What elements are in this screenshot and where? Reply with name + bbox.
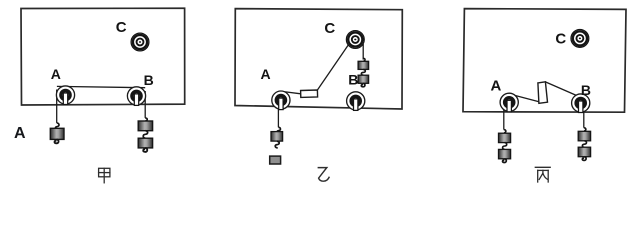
thread over pulleys A-B (panel 甲) [57,86,145,87]
hook above left weight (panel 甲) [55,123,59,129]
string below pulley A (panel 乙) [277,101,279,127]
weight B2 (panel 乙) [358,75,369,83]
hook above right weights (panel 甲) [145,118,147,121]
string below pulley C (panel 乙) [362,44,364,60]
caption 甲 [99,168,110,183]
right weight 2 (panel 甲) [138,138,152,148]
left weight (panel 乙) [271,132,283,142]
thread pulley A to card (panel 乙) [282,91,301,93]
right weight 1 (panel 甲) [138,121,152,131]
hook above left weight (panel 乙) [277,127,280,132]
hook above weight stack B (panel 乙) [363,58,365,61]
left weight (panel 甲) [50,128,64,139]
board 丙 [463,9,626,113]
S-hook between right weights (panel 甲) [143,131,147,139]
svg-text:C: C [324,20,335,37]
weight A1 (panel 丙) [499,133,511,142]
weight B1 (panel 丙) [578,131,590,141]
pulley C (panel 丙, face-on, unused) [571,30,589,48]
svg-text:C: C [555,30,566,47]
svg-text:A: A [14,125,26,142]
hook below right weights (panel 甲) [143,148,147,152]
S-hook between weights A (panel 丙) [503,143,507,150]
thread card to pulley C (panel 乙) [318,44,350,90]
board 甲 [21,8,185,105]
svg-text:B: B [348,72,358,88]
weight A2 (panel 丙) [499,149,511,158]
hook below left weight (panel 甲) [54,139,58,143]
card (panel 乙) [301,90,318,97]
thread pulley A to card (panel 丙) [513,95,539,102]
pulley at B position (panel 乙, unused) [347,92,365,111]
pulley C (panel 乙, face-on) [346,31,364,49]
hook below weight A2 (panel 丙) [503,159,507,163]
pulley A (panel 甲) [56,86,74,105]
hook below weight B2 (panel 乙) [361,83,365,87]
svg-text:A: A [491,78,502,95]
pulley C (panel 甲, face-on, unused) [131,33,149,51]
string left of pulley A (panel 甲) [56,90,58,123]
string below pulley B (panel 丙) [583,105,585,128]
card rotated (panel 丙) [538,82,548,104]
S-hook between weights B (panel 丙) [582,141,586,148]
caption 乙 [318,168,330,182]
thread card to pulley B (panel 丙) [545,82,576,96]
string below pulley A (panel 丙) [503,104,505,130]
hook above weight stack B (panel 丙) [584,128,586,131]
svg-text:B: B [144,72,154,88]
hook below weight B2 (panel 丙) [582,157,586,161]
hook above weight stack A (panel 丙) [504,130,506,133]
weight B2 (panel 丙) [578,147,590,157]
svg-text:A: A [261,66,271,82]
pulley B (panel 甲) [127,87,145,106]
svg-text:A: A [51,66,61,82]
pulley B (panel 丙) [572,94,590,113]
board 乙 [235,9,402,109]
svg-text:B: B [581,82,591,98]
pulley A (panel 乙) [272,91,290,110]
weight B1 (panel 乙) [358,61,369,69]
svg-text:C: C [116,19,127,36]
detached weight lying below (panel 乙) [270,156,281,164]
S-hook between weights B (panel 乙) [361,69,365,75]
string right of pulley B (panel 甲) [144,91,146,118]
hook below left weight (panel 乙) [275,141,279,148]
pulley A (panel 丙) [500,93,518,112]
caption 丙 [535,167,550,182]
